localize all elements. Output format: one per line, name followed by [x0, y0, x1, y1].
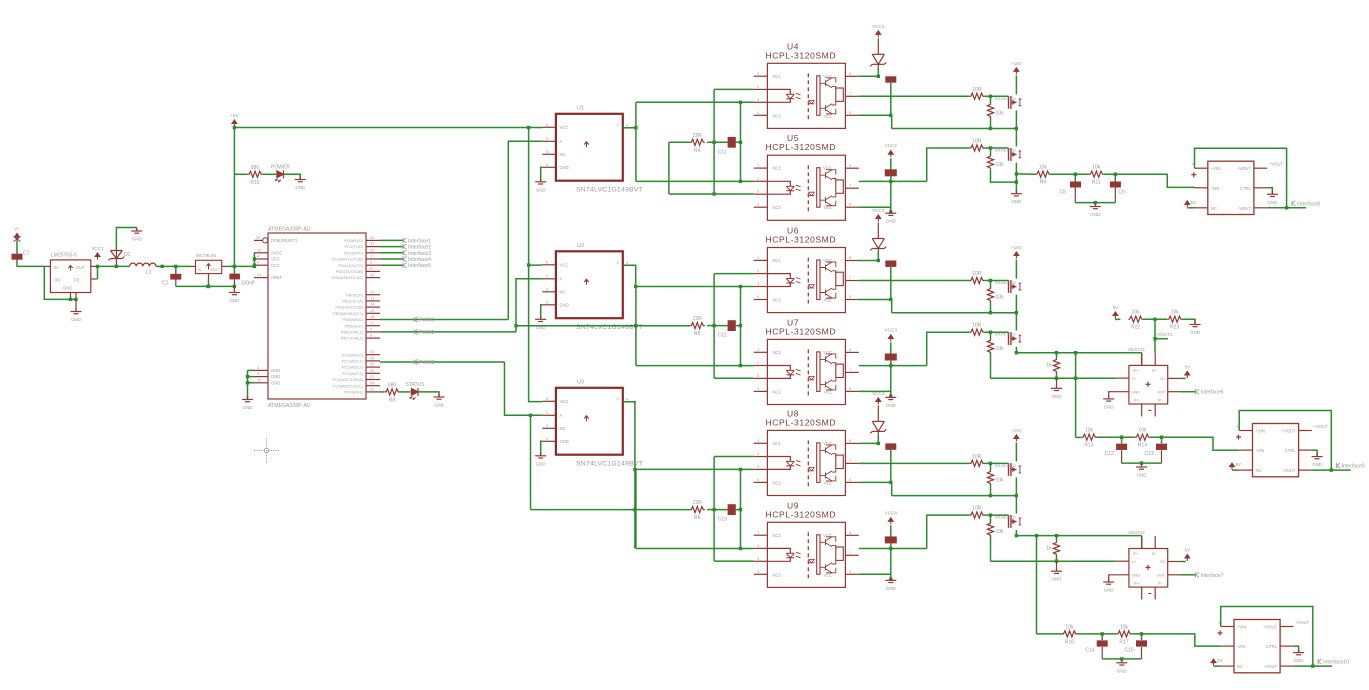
- ground LED: [295, 176, 306, 190]
- svg-text:GND: GND: [271, 374, 280, 379]
- capacitor C22 lower: [885, 536, 897, 543]
- svg-text:22R: 22R: [693, 500, 703, 506]
- svg-text:Interface8: Interface8: [1297, 201, 1320, 207]
- wire out row3 B: [1312, 469, 1351, 471]
- resistor R gate1 ch3: [970, 454, 985, 467]
- ground C ctrl: [1293, 649, 1304, 663]
- svg-text:PC6(/RESET): PC6(/RESET): [271, 238, 298, 243]
- wire lower cap column ch2: [890, 342, 892, 396]
- wire zener bottom ch3: [877, 434, 879, 443]
- ground lower opto ch1: [885, 210, 896, 224]
- svg-text:VCC: VCC: [560, 125, 569, 130]
- svg-text:PD3(INT1/OC2B): PD3(INT1/OC2B): [332, 257, 364, 262]
- svg-text:GND: GND: [560, 165, 569, 170]
- svg-text:A: A: [560, 139, 563, 144]
- svg-text:R13: R13: [1084, 443, 1093, 449]
- supply symbol 5V A: [1185, 201, 1190, 208]
- wire sensor S1 5V: [1181, 377, 1186, 379]
- ground regulator: [71, 308, 82, 322]
- svg-text:PC0(ADC0): PC0(ADC0): [342, 352, 364, 357]
- svg-text:+VOUT: +VOUT: [1269, 162, 1284, 167]
- svg-text:GND: GND: [271, 368, 280, 373]
- wire zener bottom ch2: [877, 252, 879, 261]
- svg-text:R10: R10: [250, 180, 259, 186]
- svg-text:PD7(AIN1): PD7(AIN1): [344, 390, 364, 395]
- svg-text:IP-: IP-: [1158, 398, 1164, 402]
- resistor R8: [385, 382, 400, 403]
- svg-text:22R: 22R: [693, 133, 703, 139]
- supply symbol 5V S2: [1184, 548, 1191, 562]
- resistor R13: [1082, 428, 1097, 449]
- node S1 tap: [1153, 337, 1156, 340]
- wire ladder S1 down: [1154, 319, 1156, 353]
- svg-text:PB2(SS/OC1B): PB2(SS/OC1B): [335, 305, 363, 310]
- svg-text:NC: NC: [1237, 664, 1243, 669]
- svg-text:GND: GND: [243, 405, 253, 410]
- svg-text:680: 680: [251, 165, 260, 171]
- svg-text:GND: GND: [71, 317, 81, 322]
- svg-text:10k: 10k: [996, 110, 1005, 116]
- wire AVCC feed: [253, 253, 255, 267]
- ground sensor S1: [1103, 395, 1114, 409]
- svg-text:GND: GND: [1052, 577, 1062, 582]
- wire Q2 drain ch1: [1015, 129, 1017, 147]
- wire ch1 parallel column: [740, 102, 742, 181]
- wire U1 out: [623, 127, 636, 129]
- svg-text:-VIN: -VIN: [1256, 448, 1264, 453]
- wire interface1: [380, 239, 403, 241]
- svg-text:NC: NC: [560, 152, 566, 157]
- node ch1 zener: [877, 75, 880, 78]
- wire cap3 lead: [233, 266, 235, 273]
- wire U3 out: [623, 402, 635, 549]
- svg-text:-VIN: -VIN: [1211, 186, 1219, 191]
- svg-text:GND: GND: [434, 403, 444, 408]
- svg-text:GND: GND: [1190, 330, 1200, 335]
- svg-text:R22: R22: [1131, 325, 1140, 331]
- svg-text:SN74LVC1G149BVT: SN74LVC1G149BVT: [576, 460, 643, 467]
- svg-text:GND: GND: [295, 185, 305, 190]
- svg-text:NC2: NC2: [773, 480, 782, 485]
- resistor R17: [1117, 624, 1132, 645]
- svg-text:R23: R23: [1170, 325, 1179, 331]
- wire U2 R feed: [515, 325, 517, 327]
- svg-text:R4: R4: [694, 148, 701, 154]
- microcontroller IC1 ATMEGA328 box: [263, 227, 366, 410]
- svg-text:5V: 5V: [1217, 658, 1222, 663]
- node lower ch3: [889, 547, 892, 581]
- svg-text:GND: GND: [1132, 390, 1141, 394]
- svg-text:PD6(AIN0/OC0A): PD6(AIN0/OC0A): [332, 275, 364, 280]
- svg-text:NC1: NC1: [773, 258, 782, 263]
- node ch1 cap vee: [889, 114, 892, 117]
- wire ch2 lower row3: [714, 377, 754, 379]
- wire lower row4 ch2: [859, 390, 891, 392]
- wire V+ to input cap: [17, 241, 44, 266]
- node ch3 columns: [712, 468, 742, 551]
- wire PD7 to R8: [380, 391, 385, 393]
- optocoupler U6 HCPL-3120: [754, 226, 859, 313]
- svg-text:10k: 10k: [996, 529, 1005, 535]
- wire H1 ch3: [1016, 535, 1141, 537]
- svg-text:-VIN: -VIN: [1237, 644, 1245, 649]
- ground MCU: [242, 396, 253, 410]
- svg-text:1k: 1k: [1046, 362, 1052, 368]
- svg-text:C9: C9: [1118, 190, 1125, 196]
- svg-text:10k: 10k: [1039, 165, 1048, 171]
- wire H1 ch2: [1016, 352, 1141, 354]
- svg-text:IRLML2502: IRLML2502: [995, 96, 1016, 101]
- wire LED to gnd: [284, 174, 300, 179]
- svg-text:IN: IN: [198, 267, 202, 272]
- wire PWM2 to U2 A: [516, 279, 542, 332]
- wire gate2 riser ch2: [927, 332, 970, 365]
- transistor Q3: [1009, 280, 1022, 293]
- wire GND stem regulator: [75, 299, 77, 311]
- wire VCC column U2 U3: [529, 128, 543, 402]
- net label sensor2 out: [1196, 572, 1224, 579]
- node ladderC: [1101, 632, 1144, 635]
- wire U3 output node column: [635, 469, 637, 548]
- wire ch3 upper row2: [714, 457, 754, 562]
- svg-text:27: 27: [370, 374, 375, 379]
- supply symbol VCC4: [872, 391, 885, 405]
- wire cap leads ladder1: [1074, 174, 1076, 181]
- svg-text:+15V: +15V: [1011, 245, 1023, 250]
- wire pulldown2 bottom ch3: [990, 536, 992, 561]
- supply symbol drive V+ ch3: [1011, 428, 1023, 442]
- svg-text:NC2: NC2: [773, 572, 782, 577]
- wire zener bottom ch1: [877, 67, 879, 76]
- wire ctrl gnd A: [1267, 188, 1272, 194]
- wire ladder S1 c: [1182, 319, 1195, 324]
- svg-text:Interface7: Interface7: [1201, 573, 1224, 579]
- svg-text:VCC2: VCC2: [885, 143, 898, 148]
- resistor R pulldown2 ch2: [987, 339, 1004, 354]
- wire ch1 lower row3: [714, 193, 754, 195]
- svg-text:17: 17: [370, 320, 375, 325]
- wire ch1 vcc2 row: [859, 75, 879, 77]
- wire FB to output node: [97, 266, 99, 279]
- resistor R9 filter: [1036, 165, 1051, 186]
- wire gnd stem: [136, 228, 138, 231]
- svg-text:R11: R11: [1092, 180, 1101, 186]
- supply symbol 5V S1: [1184, 364, 1191, 378]
- svg-text:IN: IN: [54, 265, 58, 270]
- ground B ctrl: [1312, 453, 1323, 467]
- svg-text:VCC2: VCC2: [872, 24, 885, 29]
- svg-text:GND: GND: [271, 380, 280, 385]
- svg-text:NC1: NC1: [773, 441, 782, 446]
- resistor R pulldown2 ch3: [987, 522, 1004, 537]
- wire pulldown1 leads ch1: [990, 96, 992, 103]
- resistor R gate1 ch2: [970, 271, 985, 284]
- svg-text:PD4(XCK/T0): PD4(XCK/T0): [339, 263, 364, 268]
- wire ctrl gnd C: [1293, 646, 1298, 652]
- resistor R pulldown1 ch2: [987, 287, 1004, 302]
- net label Interface8: [1292, 201, 1320, 208]
- supply V+ crossbar: [14, 237, 21, 242]
- wire ch3 parallel column: [740, 469, 742, 548]
- wire MCU gnd pins: [248, 370, 255, 399]
- wire zener lead ch3: [877, 405, 879, 421]
- svg-text:PWM2: PWM2: [419, 330, 435, 336]
- supply symbol V+ input: [14, 227, 20, 242]
- wire ch1 rail: [892, 128, 1017, 130]
- node ch1 rail: [989, 127, 1018, 130]
- svg-text:10k: 10k: [1171, 310, 1180, 316]
- current sensor S2: [1109, 530, 1181, 600]
- svg-text:Interface4: Interface4: [408, 257, 431, 263]
- svg-text:MC78L05: MC78L05: [196, 253, 216, 258]
- svg-text:GND: GND: [886, 219, 896, 224]
- svg-text:HCPL-3120SMD: HCPL-3120SMD: [766, 235, 837, 245]
- wire ladderC a: [1077, 633, 1117, 635]
- svg-text:GND: GND: [132, 237, 142, 242]
- svg-text:PB7(XTAL2): PB7(XTAL2): [341, 336, 364, 341]
- svg-text:ACS712: ACS712: [1128, 347, 1145, 352]
- wire PWM1 from MCU: [380, 319, 508, 321]
- wire output node to inductor: [98, 265, 130, 267]
- svg-text:+15V: +15V: [1011, 428, 1023, 433]
- wire Q2 source ch1: [1015, 163, 1017, 193]
- wire interface5: [380, 264, 403, 266]
- svg-text:GND: GND: [560, 303, 569, 308]
- wire ch3 R feed: [531, 509, 690, 511]
- wire R to gate1 ch1: [984, 95, 1008, 97]
- wire cap lead ch2: [890, 267, 892, 300]
- svg-text:5V: 5V: [1160, 377, 1165, 381]
- svg-text:IP+: IP+: [1134, 398, 1141, 402]
- svg-text:IP+: IP+: [1134, 582, 1141, 586]
- svg-text:+VIN: +VIN: [1211, 166, 1220, 171]
- node 5V rail: [233, 126, 531, 129]
- wire LDO gnd: [208, 279, 210, 286]
- wire arrow C: [1214, 665, 1221, 667]
- svg-text:+VOUT: +VOUT: [1282, 429, 1297, 434]
- capacitor C2 bulk: [162, 274, 182, 287]
- svg-text:5V: 5V: [1113, 305, 1120, 310]
- svg-text:NC1: NC1: [773, 350, 782, 355]
- wire sensor top feed ch3: [1141, 536, 1143, 549]
- wire ch2 lower anode row: [636, 365, 754, 367]
- resistor R5 gate drive: [690, 316, 705, 337]
- svg-text:LM2576S-5: LM2576S-5: [51, 253, 77, 259]
- wire ch1 R feed elbow: [669, 142, 714, 194]
- svg-text:VCC: VCC: [271, 257, 280, 262]
- node U3 A junction: [529, 414, 532, 417]
- wire loop B: [1239, 411, 1331, 471]
- wire Q1 drain ch3: [1015, 442, 1017, 461]
- supply symbol 5V B: [1230, 463, 1235, 470]
- svg-text:PB6(XTAL1): PB6(XTAL1): [341, 330, 364, 335]
- svg-text:IP-: IP-: [1152, 552, 1158, 556]
- node gate2 ch1: [989, 146, 992, 149]
- node gnd rail: [206, 285, 236, 288]
- svg-text:PD0(RXD): PD0(RXD): [344, 238, 364, 243]
- wire PWM3 from MCU: [380, 361, 505, 363]
- supply symbol VCC1: [91, 246, 104, 260]
- wire Q1 drain ch1: [1015, 75, 1017, 94]
- wire H2 ch3: [991, 560, 1116, 562]
- svg-text:CTRL: CTRL: [1266, 644, 1278, 649]
- node U2 R tap: [514, 324, 517, 327]
- svg-text:+VOUT: +VOUT: [1295, 620, 1310, 625]
- svg-text:VCC1: VCC1: [91, 246, 104, 251]
- svg-text:NC: NC: [1211, 206, 1217, 211]
- resistor R10: [248, 165, 263, 186]
- ground lower opto ch3: [885, 577, 896, 591]
- node ch1 columns: [712, 101, 742, 183]
- svg-text:5V: 5V: [1160, 560, 1165, 564]
- node stage tail ch3: [1015, 534, 1059, 563]
- wire lower row2 ch3: [859, 548, 927, 550]
- LED power indicator: [271, 164, 290, 182]
- svg-text:ACS712: ACS712: [1128, 530, 1145, 535]
- svg-text:PB4(MISO): PB4(MISO): [343, 317, 364, 322]
- ground U2: [535, 316, 546, 330]
- svg-text:23: 23: [370, 349, 375, 354]
- svg-text:GND: GND: [1137, 473, 1147, 478]
- wire ch2 vcc2 row: [859, 260, 879, 262]
- svg-text:OUT: OUT: [211, 267, 220, 272]
- wire R to gate2 ch2: [984, 331, 1008, 333]
- wire out row3 A: [1267, 207, 1306, 209]
- svg-text:10R: 10R: [972, 87, 982, 93]
- svg-text:FB: FB: [74, 278, 80, 283]
- optocoupler U7 HCPL-3120: [754, 317, 859, 404]
- svg-text:CTRL: CTRL: [1240, 186, 1252, 191]
- svg-text:GND: GND: [1117, 668, 1127, 673]
- wire pulldown1 leads ch3: [990, 463, 992, 470]
- wire Q1 source ch1: [1015, 110, 1017, 128]
- optocoupler U9 HCPL-3120: [754, 500, 859, 587]
- svg-text:GND: GND: [1052, 394, 1062, 399]
- svg-text:A: A: [560, 413, 563, 418]
- svg-text:IRLML2502: IRLML2502: [995, 148, 1016, 153]
- svg-text:V+: V+: [1132, 377, 1138, 381]
- capacitor C8 filter: [1060, 182, 1082, 196]
- svg-text:C2: C2: [162, 281, 169, 287]
- wire ch2 upper row2: [714, 274, 754, 379]
- svg-text:PB5(SCK): PB5(SCK): [345, 323, 364, 328]
- wire H2 ch2: [991, 377, 1116, 379]
- net label Interface10: [1318, 659, 1349, 666]
- wire ch1 lower anode row: [636, 180, 754, 182]
- svg-text:+VOUT: +VOUT: [1237, 166, 1252, 171]
- wire ladder S1 b: [1143, 318, 1167, 320]
- svg-text:PC5(ADC5/SCL): PC5(ADC5/SCL): [333, 383, 364, 388]
- svg-text:L1: L1: [146, 270, 152, 276]
- wire Q2 source ch3: [1015, 530, 1017, 536]
- wire pulldown2 leads ch1: [990, 148, 992, 155]
- wire ladder1 gnd: [1075, 202, 1115, 204]
- svg-text:PD2(INT0): PD2(INT0): [344, 250, 364, 255]
- capacitor C14: [1085, 640, 1108, 653]
- svg-text:10k: 10k: [996, 477, 1005, 483]
- node loop A: [1285, 206, 1288, 209]
- diode D1 catch: [109, 250, 131, 266]
- node U1 out: [634, 126, 637, 129]
- svg-text:+VIN: +VIN: [1256, 429, 1265, 434]
- svg-text:POWER: POWER: [271, 164, 290, 170]
- wire gate1 feed ch1: [859, 95, 970, 97]
- capacitor C12 speedup: [718, 320, 736, 338]
- svg-text:680: 680: [388, 382, 397, 388]
- svg-text:10R: 10R: [972, 271, 982, 277]
- wire ladder1 c: [1104, 174, 1195, 187]
- svg-text:+VOUT: +VOUT: [1263, 625, 1278, 630]
- wire zener lead ch2: [877, 223, 879, 239]
- svg-text:IRLML2502: IRLML2502: [995, 463, 1016, 468]
- svg-text:30: 30: [370, 235, 375, 240]
- svg-text:VCC: VCC: [560, 263, 569, 268]
- wire ladderB feed: [1076, 436, 1082, 438]
- transistor Q4: [1009, 332, 1022, 345]
- DCDC converter A: [1191, 161, 1283, 214]
- wire ch1 upper anode row: [636, 101, 754, 103]
- resistor R16: [1062, 624, 1077, 645]
- capacitor C20 lower: [885, 169, 897, 176]
- svg-text:NC: NC: [1256, 468, 1262, 473]
- svg-text:21: 21: [257, 272, 262, 277]
- wire ch2 parallel column: [740, 287, 742, 366]
- wire PWM3 to U3 A: [505, 362, 543, 415]
- svg-text:GND: GND: [1312, 462, 1322, 467]
- svg-text:10R: 10R: [972, 139, 982, 145]
- svg-text:HCPL-3120SMD: HCPL-3120SMD: [766, 142, 837, 152]
- regulator U11 LDO box: [190, 253, 228, 279]
- wire LDO out: [228, 265, 255, 267]
- resistor R pulldown1 ch1: [987, 103, 1004, 118]
- resistor R4 gate drive: [690, 133, 705, 154]
- svg-text:IRLML2502: IRLML2502: [995, 280, 1016, 285]
- wire arrow A: [1187, 207, 1194, 209]
- svg-text:10k: 10k: [1120, 624, 1129, 630]
- resistor R gate1 ch1: [970, 87, 985, 100]
- svg-text:Y: Y: [616, 260, 619, 265]
- wire Q2 drain ch2: [1015, 313, 1017, 331]
- svg-text:CTRL: CTRL: [1285, 448, 1297, 453]
- svg-text:NC1: NC1: [773, 166, 782, 171]
- svg-text:Y: Y: [616, 396, 619, 401]
- svg-text:VCC: VCC: [560, 399, 569, 404]
- net label PWM1: [414, 317, 435, 324]
- capacitor C11 speedup: [718, 137, 736, 155]
- wire ctrl gnd B: [1312, 450, 1317, 456]
- wire sensor S2 out: [1181, 574, 1196, 576]
- supply symbol +5V rail: [230, 113, 239, 128]
- wire ch3 rail: [892, 495, 1017, 497]
- wire ladder S1 a: [1115, 318, 1120, 320]
- wire lower row2 ch2: [859, 365, 927, 367]
- capacitor C19 vcc2: [885, 443, 896, 449]
- node gate2 ch2: [989, 331, 992, 334]
- ground U1: [535, 178, 546, 192]
- capacitor C9 filter: [1110, 182, 1125, 196]
- supply symbol VCC3: [872, 208, 885, 222]
- wire 5V branch to R10: [234, 173, 247, 175]
- node ladder1: [1074, 173, 1117, 176]
- resistor R bleed ch2: [1046, 358, 1059, 373]
- inductor L1: [130, 263, 156, 276]
- svg-text:5V: 5V: [1191, 200, 1196, 205]
- wire ch3 lower anode row: [636, 548, 754, 550]
- node ch2 cap vee: [889, 298, 892, 301]
- net label Interface4: [403, 256, 431, 263]
- wire R8 to LED2: [399, 391, 410, 393]
- supply symbol 5V C: [1211, 659, 1216, 666]
